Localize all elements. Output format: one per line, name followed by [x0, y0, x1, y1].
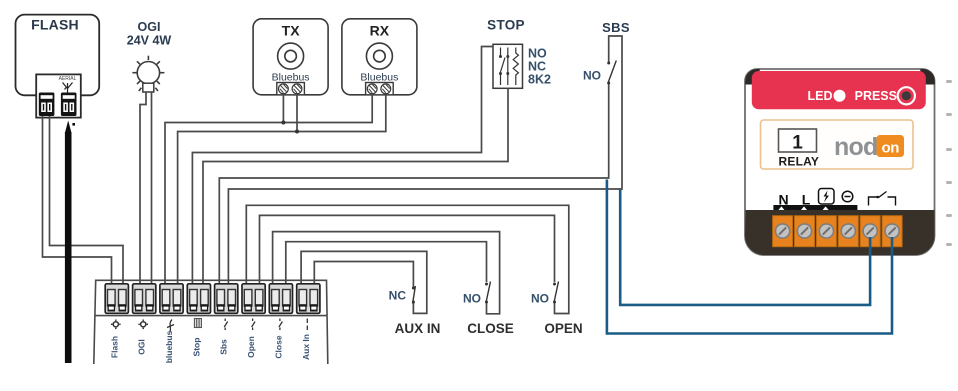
icon Open: [252, 319, 256, 331]
terminal block Flash: [105, 284, 128, 314]
svg-text:NO: NO: [528, 47, 547, 61]
STOP NO contact: [500, 48, 505, 86]
wire OPEN outer loop: [246, 205, 569, 313]
terminal block bluebus: [160, 284, 183, 314]
wire flash terminal to control unit Flash (inner): [50, 116, 124, 284]
wire CLOSE outer loop: [273, 232, 500, 314]
svg-text:FLASH: FLASH: [31, 17, 79, 33]
icon bluebus: [167, 320, 174, 333]
dark top-left corner: [745, 69, 760, 85]
STOP device box: [493, 44, 523, 88]
svg-text:1: 1: [792, 133, 803, 154]
photocell RX: [342, 19, 417, 95]
aerial terminal block (right): [61, 93, 77, 117]
svg-text:RELAY: RELAY: [779, 155, 820, 169]
wire SBS upper leg loop: [228, 36, 622, 284]
svg-text:OPEN: OPEN: [544, 321, 582, 336]
terminal screws: [776, 224, 900, 238]
icon OGI: [138, 320, 148, 330]
minus circle symbol: [842, 191, 853, 202]
svg-text:OGI: OGI: [138, 20, 161, 34]
photocell TX: [253, 19, 328, 95]
wire flash terminal to control unit Flash (outer): [43, 116, 112, 284]
svg-text:LED: LED: [808, 89, 833, 103]
svg-text:NO: NO: [583, 69, 601, 83]
NodOn relay module body: [745, 69, 935, 255]
wire AUX IN inner leg: [314, 262, 413, 288]
OPEN switch blade: [554, 282, 559, 303]
svg-text:NC: NC: [528, 60, 546, 74]
flasher unit FLASH: [16, 15, 100, 96]
svg-text:Aux In: Aux In: [301, 334, 311, 360]
lamp OGI bulb: [132, 56, 164, 91]
wire blue relay contact to SBS (conductor 2): [620, 190, 870, 305]
tan inner frame: [761, 120, 914, 169]
svg-text:CLOSE: CLOSE: [467, 321, 514, 336]
terminal block Close: [269, 284, 292, 314]
icon Sbs: [224, 319, 228, 331]
svg-text:NC: NC: [389, 289, 407, 303]
lamp base: [143, 83, 154, 92]
wire TX left tap: [282, 95, 284, 123]
icon Close: [279, 319, 283, 331]
svg-text:Stop: Stop: [191, 338, 201, 357]
svg-text:bluebus: bluebus: [164, 330, 174, 363]
icon Aux In: [306, 319, 308, 331]
svg-text:Sbs: Sbs: [219, 339, 229, 355]
icon Stop: [194, 319, 201, 328]
wire OGI lamp to control unit OGI (right): [151, 92, 153, 284]
page edge marks: [946, 80, 952, 246]
svg-text:NO: NO: [531, 292, 549, 306]
svg-text:8K2: 8K2: [528, 73, 551, 87]
relay number box: [779, 129, 817, 152]
wire bluebus conductor 1 (control unit to RX left): [165, 95, 372, 284]
surge label box with lightning: [819, 189, 835, 205]
red header band: [752, 71, 926, 109]
svg-text:NO: NO: [463, 292, 481, 306]
STOP NC contact: [507, 48, 509, 86]
aerial receiver box: [36, 74, 81, 117]
LED circle: [834, 90, 846, 102]
control unit housing: [94, 280, 328, 364]
wire blue relay contact to SBS (conductor 1): [607, 180, 892, 334]
flash terminal block (left): [39, 93, 55, 117]
wire OPEN inner leg: [260, 215, 555, 283]
terminal block Sbs: [215, 284, 238, 314]
SBS switch blade: [608, 61, 617, 84]
antenna symbol: [63, 83, 73, 93]
icon Flash: [111, 320, 121, 330]
svg-text:Close: Close: [273, 335, 283, 358]
dark bottom housing: [745, 210, 935, 255]
svg-text:nod: nod: [834, 133, 877, 161]
node TX left junction: [281, 121, 285, 125]
svg-text:RX: RX: [370, 23, 390, 39]
svg-text:AUX IN: AUX IN: [395, 321, 441, 336]
svg-text:STOP: STOP: [487, 18, 525, 33]
PRESS button: [898, 87, 915, 104]
orange terminal blocks: [773, 216, 903, 247]
svg-text:Bluebus: Bluebus: [360, 72, 398, 84]
aerial coax cable (black): [65, 121, 75, 364]
svg-text:TX: TX: [282, 23, 301, 39]
wire SBS lower leg to control unit Sbs: [219, 84, 608, 284]
terminal block Stop: [187, 284, 210, 314]
terminal block OGI: [133, 284, 156, 314]
svg-text:Bluebus: Bluebus: [272, 72, 310, 84]
terminal block Aux In: [297, 284, 320, 314]
STOP 8K2 resistor: [513, 48, 518, 86]
svg-text:PRESS: PRESS: [855, 89, 897, 103]
terminal block Open: [242, 284, 265, 314]
node TX right junction: [295, 130, 299, 134]
wire STOP right to control unit Stop: [203, 88, 508, 283]
wire AUX IN outer loop: [301, 251, 427, 313]
svg-text:24V 4W: 24V 4W: [127, 34, 172, 48]
svg-text:Open: Open: [246, 336, 256, 358]
svg-text:Flash: Flash: [109, 336, 119, 358]
black terminal bar with triangles: [773, 205, 857, 210]
relay contact symbol: [869, 192, 896, 206]
CLOSE switch blade: [486, 282, 491, 303]
svg-text:OGI: OGI: [137, 339, 147, 355]
AUX IN NC switch blade: [413, 286, 416, 304]
svg-text:AERIAL: AERIAL: [59, 76, 77, 82]
wire bluebus conductor 2 (control unit to RX right): [178, 95, 386, 284]
wire OGI lamp to control unit OGI (left, with jog): [140, 92, 146, 284]
wire STOP left to control unit Stop: [192, 47, 493, 284]
wire TX right tap: [296, 95, 298, 132]
svg-text:SBS: SBS: [602, 20, 630, 35]
dark top-right corner: [920, 69, 935, 85]
svg-text:on: on: [882, 140, 900, 157]
wire CLOSE inner leg: [286, 242, 487, 284]
